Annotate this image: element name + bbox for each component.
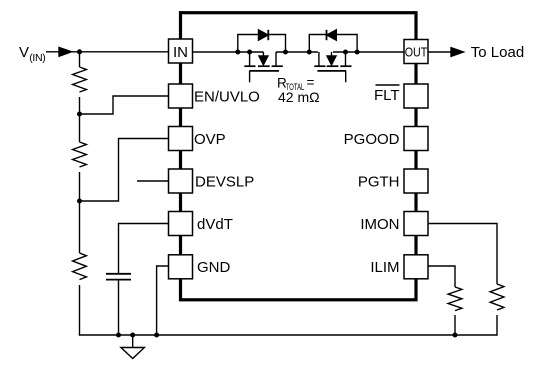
svg-text:42 mΩ: 42 mΩ: [278, 89, 320, 105]
resistor R3: [73, 253, 87, 280]
pin IMON: [404, 212, 428, 236]
pin dVdT: [169, 212, 193, 236]
wire between FETs: [276, 51, 318, 53]
svg-text:OVP: OVP: [194, 131, 226, 148]
capacitor C1: [106, 274, 131, 280]
node cap-gnd junction: [116, 333, 121, 338]
node VIN junction: [77, 49, 82, 54]
pin IN: [169, 39, 193, 63]
node OVP junction: [77, 199, 82, 204]
wire R3 to ground rail: [79, 285, 81, 335]
pin EN/UVLO: [169, 84, 193, 108]
svg-text:PGTH: PGTH: [358, 173, 400, 190]
wire OVP tap: [80, 139, 169, 202]
node rilim-rail junction: [453, 333, 458, 338]
svg-text:DEVSLP: DEVSLP: [195, 173, 254, 190]
svg-text:ILIM: ILIM: [370, 259, 399, 276]
node gnd-symbol junction: [130, 333, 135, 338]
wire DEVSLP stub: [137, 180, 169, 182]
transistor Q2: [314, 52, 351, 82]
svg-text:FLT: FLT: [374, 87, 400, 104]
label RTOTAL value: [277, 75, 320, 105]
pin OUT: [404, 40, 428, 64]
pin DEVSLP: [169, 169, 193, 193]
wire OUT pin to load: [428, 51, 452, 53]
svg-text:dVdT: dVdT: [197, 216, 233, 233]
node divider mid junction: [77, 112, 82, 117]
wire RILIM to ground rail: [454, 315, 456, 335]
resistor R1: [73, 67, 87, 92]
node Q2 cathode junction: [355, 50, 360, 55]
svg-text:PGOOD: PGOOD: [344, 131, 400, 148]
node input arrow: [59, 47, 72, 56]
node Q2 source junction: [307, 50, 312, 55]
resistor R2: [73, 142, 87, 167]
IC U1 body outline: [181, 13, 417, 300]
wire right FET drain to OUT pin: [333, 51, 404, 53]
diode D1: [259, 30, 269, 40]
ground: [121, 335, 144, 359]
wire capacitor to ground rail: [118, 281, 120, 336]
svg-text:OUT: OUT: [405, 44, 428, 59]
pin OVP: [169, 127, 193, 151]
FLT overline: [376, 84, 400, 86]
pin ILIM: [404, 255, 428, 279]
wire ILIM to RILIM: [428, 266, 455, 287]
node Q1 source junction: [283, 50, 288, 55]
transistor Q2 body-diode loop: [309, 35, 357, 53]
node output arrow: [451, 48, 464, 57]
svg-text:IMON: IMON: [360, 216, 399, 233]
svg-text:IN: IN: [173, 44, 188, 61]
svg-text:GND: GND: [197, 259, 231, 276]
resistor RILIM: [448, 287, 462, 311]
wire ground rail: [79, 334, 497, 336]
transistor Q1 body-diode loop: [238, 35, 286, 53]
node Q1 anode junction: [235, 50, 240, 55]
svg-text:EN/UVLO: EN/UVLO: [194, 88, 260, 105]
diode D2: [327, 30, 337, 40]
node Q1 drain junction: [247, 50, 252, 55]
svg-text:V: V: [19, 44, 29, 61]
wire EN/UVLO tap: [80, 96, 169, 114]
resistor RIMON: [490, 284, 504, 310]
svg-text:To Load: To Load: [471, 44, 524, 61]
pin PGOOD: [404, 127, 428, 151]
wire IN pin to left FET drain: [193, 51, 264, 53]
transistor Q1: [244, 52, 282, 82]
wire IMON to RIMON: [428, 224, 497, 285]
wire R1 to R2: [79, 97, 81, 142]
pin PGTH: [404, 169, 428, 193]
wire left divider rail top: [79, 52, 81, 67]
svg-text:(IN): (IN): [29, 52, 45, 64]
wire RIMON to ground rail: [496, 315, 498, 336]
wire V(IN) to IN pin: [46, 51, 169, 53]
pin GND: [169, 255, 193, 279]
node Q2 drain junction: [343, 50, 348, 55]
wire R2 to R3: [79, 172, 81, 253]
wire dVdT to capacitor: [119, 224, 169, 274]
pin FLT: [404, 84, 428, 108]
node gndpin-rail junction: [154, 333, 159, 338]
wire GND pin to ground rail: [157, 266, 169, 335]
label V(IN): [19, 44, 45, 64]
